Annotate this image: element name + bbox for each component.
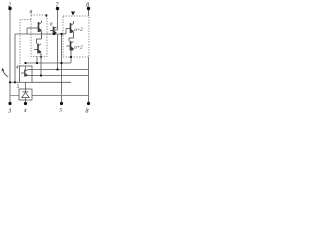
svg-text:8: 8 [86,109,89,115]
svg-text:a+2: a+2 [74,28,83,33]
svg-text:8: 8 [30,10,33,16]
svg-text:4: 4 [24,107,27,114]
svg-text:3: 3 [7,109,11,115]
svg-text:8: 8 [86,3,89,9]
svg-text:5: 5 [60,108,63,114]
svg-text:a+2: a+2 [74,45,83,50]
svg-text:2: 2 [8,3,11,9]
